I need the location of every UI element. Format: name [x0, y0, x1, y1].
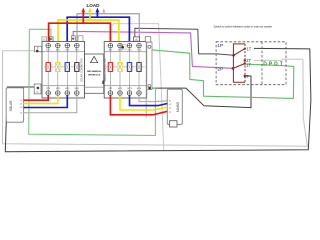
contactor K2 top terminals [108, 43, 141, 48]
contactor K2 coil terminal A2 box + junction dot [145, 37, 151, 90]
bus L2 yellow to LOAD [58, 20, 119, 45]
contactor K2 aux node green dot box [121, 45, 126, 50]
wire mains L3 blue [130, 95, 168, 105]
wire grey vertical from K2 coil top box down [145, 42, 147, 118]
contactor K1 coil terminal A1 box [35, 46, 42, 52]
contactor K2 bottom terminals [108, 88, 141, 90]
link box below mains [170, 121, 177, 127]
contactor K1 top terminals 1/L1 3/L2 5/L3 7/L4 [46, 43, 79, 48]
wire solar N grey [24, 95, 77, 112]
DPDT enclosure dashed box [216, 42, 286, 85]
SOLAR source box [6, 88, 23, 122]
mechanical interlock box [84, 54, 105, 93]
wire dark: contactor K2 coil A2 to DPDT 2T pole2 [150, 76, 251, 108]
svg-text:MAINS: MAINS [176, 102, 180, 112]
svg-text:A1: A1 [37, 47, 39, 50]
svg-text:SOLAR: SOLAR [9, 100, 13, 112]
svg-text:1P: 1P [217, 43, 223, 49]
wire solar L3 blue [24, 95, 68, 107]
contactor K1 aux box green terminal [50, 37, 53, 41]
LOAD arrow red [81, 8, 85, 24]
switch pole 2 lever [233, 64, 245, 69]
wire green G2: contactor K1 aux to contactor K2 coil A2 (big left loop) [29, 29, 156, 135]
switch contact dots [232, 48, 246, 78]
LOAD arrow yellow [88, 8, 92, 20]
bus L3 blue to LOAD [67, 17, 129, 45]
LOAD arrow blue [96, 8, 100, 18]
contactor K2 pole lines [106, 48, 145, 91]
svg-text:LOAD: LOAD [86, 3, 100, 8]
wire green G1: contactor K2 aux node to DPDT 1T pole2 [123, 47, 294, 98]
contactor K1 pole lines [44, 48, 83, 91]
svg-text:Switch to switch between solar: Switch to switch between solar or main a… [214, 25, 273, 29]
contactor K2 coil box top (A1) [134, 37, 140, 41]
contactor K2 (mains) body [104, 42, 147, 99]
wire mains N grey [139, 95, 167, 101]
svg-text:1T: 1T [247, 46, 252, 51]
switch S1 maroon frame [233, 44, 245, 82]
contactor K1 aux box top-left [42, 37, 47, 41]
contactor K1 aux box top-right2 [78, 36, 83, 42]
svg-text:MAINS CONTACTOR: MAINS CONTACTOR [104, 58, 107, 81]
svg-text:2T: 2T [244, 74, 249, 79]
svg-text:2P: 2P [217, 66, 223, 72]
wire solar L2 yellow [24, 95, 58, 103]
svg-text:13: 13 [43, 39, 45, 41]
wire grey feed: contactor K2 coil A1 to DPDT pole 1P [135, 28, 234, 55]
contactor K1 coil terminal A2 box [34, 84, 41, 94]
svg-text:INTERLOCK: INTERLOCK [88, 74, 101, 76]
switch pole 1 lever [234, 49, 245, 56]
svg-text:A2: A2 [36, 91, 38, 94]
contactor K1 (solar) body [42, 42, 85, 99]
contactor K2 side strip right [147, 42, 152, 90]
wire duct slanted light line [113, 24, 164, 151]
contactor K2 main contacts [108, 63, 141, 72]
wire purple: contactor K1 coil to DPDT pole 2P [73, 31, 233, 68]
svg-text:SOLAR CONTACTOR: SOLAR CONTACTOR [81, 58, 84, 82]
bus N grey to LOAD [77, 14, 139, 45]
DPDT internal dashed divider [261, 42, 263, 85]
svg-text:A1: A1 [135, 38, 137, 41]
svg-text:1T: 1T [246, 62, 251, 67]
svg-text:MECHANICAL: MECHANICAL [87, 70, 102, 73]
wire N1 black loop: DPDT 1T pole1 to contactor K1 coil A2 via bottom frame [5, 48, 311, 151]
MAINS source box [167, 89, 182, 124]
bus L1 red to LOAD [49, 23, 111, 45]
LOAD arrow grey N [102, 8, 105, 14]
contactor K1 main contacts [46, 63, 79, 72]
wire solar L1 red [24, 95, 49, 100]
contactor K1 bottom terminals 2/T1 4/T2 6/T3 8/T4 [46, 88, 79, 90]
wire mains L1 red [110, 95, 167, 114]
wire N2 light-grey loop: DPDT 2T pole1 to contactor K1 coil A1 via left frame [3, 51, 308, 146]
contactor K1 coil box top-right (purple) [72, 36, 76, 42]
wire mains L2 yellow [120, 95, 167, 110]
